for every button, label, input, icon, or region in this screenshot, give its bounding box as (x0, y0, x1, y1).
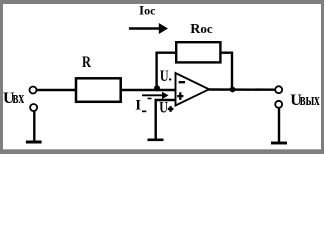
input terminal upper circle (30, 87, 37, 94)
wire output (208, 88, 275, 91)
svg-text:Iос: Iос (139, 2, 156, 17)
label U+ (159, 100, 173, 117)
resistor R (76, 78, 121, 102)
wire Roc right horizontal (221, 52, 234, 54)
wire feedback right vertical (231, 52, 233, 90)
wire input to R (36, 89, 76, 91)
node summing junction (154, 85, 160, 91)
op-amp (176, 73, 210, 106)
svg-text:R: R (82, 54, 92, 72)
wire non-inverting input (155, 99, 176, 101)
arrow Iос current direction (129, 23, 168, 34)
label U− (160, 69, 171, 86)
svg-text:U: U (160, 69, 169, 86)
svg-text:U: U (159, 100, 168, 117)
ground middle (148, 139, 164, 142)
minus sign inverting input (179, 81, 185, 83)
wire R to summing node (121, 89, 177, 91)
svg-text:Rос: Rос (190, 21, 213, 37)
input terminal lower circle (30, 104, 37, 111)
arrow I− current into inverting input (142, 92, 169, 99)
svg-text:вых: вых (300, 92, 320, 110)
wire non-inverting input to ground (154, 99, 156, 140)
output terminal upper circle (275, 86, 282, 93)
plus sign non-inverting input (177, 92, 183, 100)
output terminal lower circle (275, 101, 282, 108)
label I− (135, 98, 151, 114)
wire feedback left vertical (155, 52, 157, 90)
ground left (26, 141, 42, 144)
wire output terminal to ground (278, 108, 280, 143)
svg-text:I: I (135, 98, 141, 114)
svg-text:вх: вх (13, 89, 25, 108)
ground right (271, 142, 287, 145)
wire input terminal to ground (33, 111, 35, 142)
node output junction (230, 87, 236, 93)
resistor Rос (176, 42, 220, 62)
wire Roc left horizontal (156, 52, 177, 54)
